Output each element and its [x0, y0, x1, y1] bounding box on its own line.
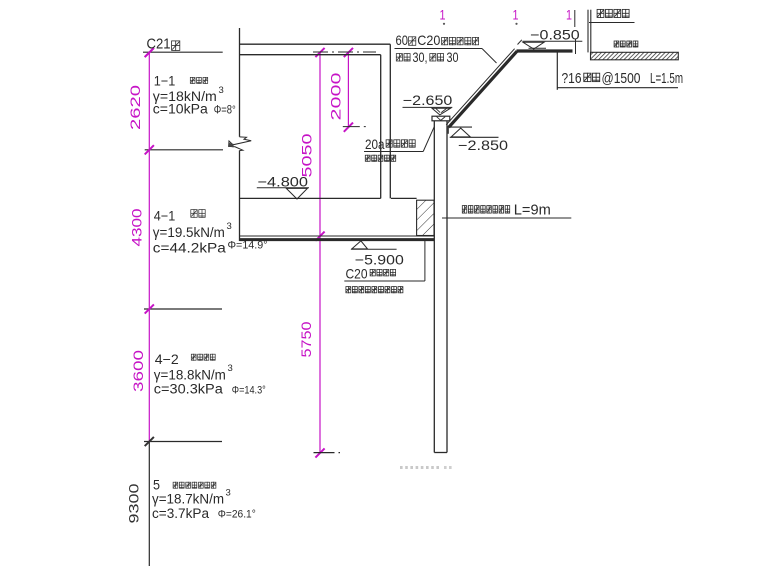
svg-text:−4.800: −4.800: [258, 173, 309, 189]
svg-text:3: 3: [219, 85, 224, 96]
svg-text:2000: 2000: [327, 72, 343, 120]
svg-text:4−1: 4−1: [154, 209, 176, 224]
svg-text:2620: 2620: [127, 85, 143, 130]
svg-text:γ=19.5kN/m: γ=19.5kN/m: [153, 225, 225, 240]
svg-text:5050: 5050: [299, 133, 315, 177]
svg-text:5750: 5750: [298, 321, 314, 357]
svg-text:5: 5: [153, 478, 160, 493]
svg-text:−2.650: −2.650: [403, 92, 453, 108]
svg-text:1: 1: [566, 8, 572, 23]
svg-text:Φ=8°: Φ=8°: [214, 105, 236, 117]
svg-text:c=30.3kPa: c=30.3kPa: [154, 382, 224, 397]
svg-text:Φ=14.9°: Φ=14.9°: [228, 240, 268, 252]
svg-text:1: 1: [513, 8, 519, 23]
svg-text:C20: C20: [346, 265, 368, 281]
svg-text:Φ=26.1°: Φ=26.1°: [218, 509, 256, 521]
svg-text:60: 60: [396, 32, 409, 48]
svg-text:Φ=14.3°: Φ=14.3°: [232, 385, 266, 397]
svg-text:9300: 9300: [125, 483, 141, 523]
svg-text:C21: C21: [147, 37, 171, 53]
svg-text:4300: 4300: [129, 208, 145, 246]
svg-text:30: 30: [447, 50, 459, 65]
svg-text:L=9m: L=9m: [514, 202, 551, 219]
svg-text:γ=18.7kN/m: γ=18.7kN/m: [152, 492, 224, 507]
svg-text:c=3.7kPa: c=3.7kPa: [152, 506, 209, 521]
svg-text:3600: 3600: [130, 350, 146, 392]
svg-text:1: 1: [440, 8, 446, 23]
svg-text:3: 3: [228, 363, 233, 374]
svg-text:@1500: @1500: [602, 70, 641, 87]
svg-text:3: 3: [226, 488, 231, 499]
svg-text:30,: 30,: [413, 50, 428, 65]
svg-text:20a: 20a: [365, 136, 385, 152]
svg-text:3: 3: [227, 221, 232, 232]
svg-text:C20: C20: [417, 32, 440, 48]
svg-text:4−2: 4−2: [155, 352, 179, 367]
svg-text:c=10kPa: c=10kPa: [153, 102, 209, 117]
svg-text:1−1: 1−1: [154, 74, 176, 89]
svg-text:c=44.2kPa: c=44.2kPa: [153, 241, 227, 256]
svg-text:γ=18.8kN/m: γ=18.8kN/m: [154, 368, 226, 383]
svg-text:−2.850: −2.850: [458, 137, 508, 153]
svg-text:L=1.5m: L=1.5m: [650, 70, 683, 87]
svg-text:−0.850: −0.850: [530, 27, 580, 43]
svg-text:?16: ?16: [562, 70, 582, 87]
